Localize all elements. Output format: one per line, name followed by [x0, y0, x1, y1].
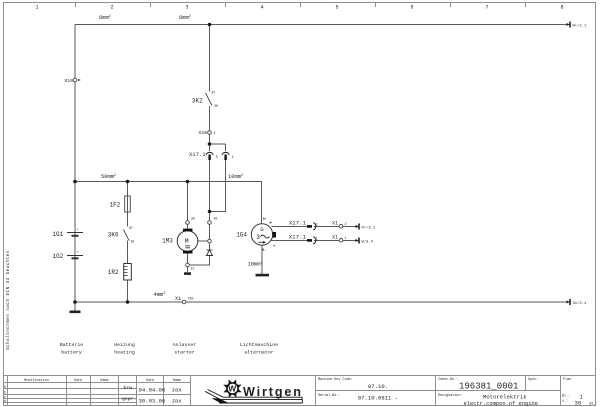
svg-text:Heizung: Heizung	[114, 342, 135, 348]
svg-text:07.10.: 07.10.	[368, 383, 388, 390]
svg-text:2: 2	[316, 224, 318, 228]
svg-text:Anlasser: Anlasser	[173, 342, 197, 348]
node pin50 merge	[208, 210, 212, 214]
grid column numbers	[35, 5, 563, 11]
svg-text:3K6: 3K6	[108, 231, 119, 238]
svg-text:2: 2	[110, 5, 113, 11]
svg-text:Jax: Jax	[172, 398, 183, 405]
svg-text:heating: heating	[114, 350, 135, 356]
flag reference D+/3.1	[356, 224, 376, 231]
svg-text:2: 2	[345, 223, 347, 227]
svg-text:87: 87	[212, 91, 216, 95]
svg-text:Bl.:: Bl.:	[590, 402, 598, 407]
svg-text:Serial-No.:: Serial-No.:	[318, 393, 340, 398]
motor 1M3 pin 50	[208, 221, 212, 225]
wire 3K6 to 1R2	[127, 241, 129, 264]
svg-text:3K2: 3K2	[192, 97, 203, 104]
revision row 2	[122, 397, 182, 405]
flag reference B+/2.1 top right	[567, 22, 587, 29]
ground battery	[70, 311, 81, 314]
wire battery to ground	[74, 302, 76, 311]
wire diode to pin31 node	[190, 256, 210, 266]
svg-text:Designation:: Designation:	[438, 393, 462, 398]
wire alternator B- to ground	[261, 245, 263, 274]
connector X17.1 pin 1 (W row)	[289, 234, 318, 244]
node X17.1 split	[208, 142, 212, 146]
svg-text:v.:: v.:	[562, 400, 568, 404]
svg-text:4mm2: 4mm2	[154, 292, 166, 298]
svg-text:X17.1: X17.1	[289, 220, 307, 227]
svg-text:31: 31	[191, 267, 195, 271]
svg-text:1R2: 1R2	[108, 269, 119, 276]
svg-text:87: 87	[129, 226, 133, 230]
battery 1G1	[67, 233, 83, 236]
svg-text:B+: B+	[263, 218, 267, 222]
svg-text:w: w	[273, 244, 275, 248]
wire 3K2 drop from top bus	[209, 25, 211, 92]
wire top bus 30/B+ rail	[75, 24, 569, 26]
svg-text:10mm2: 10mm2	[228, 174, 243, 180]
wire 1R2 to bottom bus	[127, 280, 129, 302]
svg-text:30: 30	[191, 216, 195, 220]
svg-text:battery: battery	[61, 350, 82, 356]
node top bus / 3K2	[208, 23, 212, 27]
svg-text:brw.: brw.	[124, 385, 136, 391]
terminal X10 below 3K2	[199, 130, 216, 136]
svg-text:Spot:: Spot:	[528, 378, 538, 382]
svg-text:Data: Data	[74, 379, 82, 383]
terminal X10 on battery feed	[64, 78, 81, 84]
svg-text:7: 7	[485, 5, 488, 11]
switch 3K6	[124, 230, 130, 241]
svg-text:Machine Key Code:: Machine Key Code:	[318, 377, 353, 382]
svg-text:3: 3	[256, 234, 260, 241]
svg-text:1G2: 1G2	[53, 253, 64, 260]
plan cell	[562, 377, 598, 407]
svg-text:8: 8	[560, 5, 563, 11]
svg-text:Bl.:: Bl.:	[562, 393, 570, 398]
wire right X17.1 down and left to pin50 node	[210, 160, 226, 212]
motor side terminal	[208, 239, 212, 243]
svg-text:alternator: alternator	[244, 350, 273, 356]
svg-text:M: M	[185, 238, 189, 245]
svg-text:Lichtmaschine: Lichtmaschine	[240, 342, 278, 348]
wire pin50 down to motor side terminal	[209, 225, 211, 240]
title block vertical lines right	[315, 376, 317, 406]
alternator 1G4	[236, 218, 276, 253]
title block header bottom line	[4, 382, 191, 384]
svg-text:4: 4	[214, 132, 216, 136]
motor 1M3	[162, 229, 198, 254]
svg-text:6: 6	[410, 5, 413, 11]
wire motor branch from mid bus	[187, 182, 189, 221]
wire alternator D+ row	[271, 225, 307, 227]
svg-text:Plan: Plan	[563, 377, 571, 382]
svg-text:6mm2: 6mm2	[179, 15, 191, 21]
svg-text:30: 30	[575, 400, 582, 407]
svg-text:Schaltnormen nach DIN 34 beach: Schaltnormen nach DIN 34 beachten	[6, 250, 11, 350]
svg-text:Name: Name	[173, 379, 181, 383]
Wirtgen logo	[205, 381, 303, 404]
svg-text:+: +	[77, 229, 80, 233]
svg-text:1G1: 1G1	[52, 231, 63, 238]
wire left X17.1 to pin50	[209, 160, 211, 220]
svg-text:Ident-No.:: Ident-No.:	[438, 377, 458, 382]
svg-text:d: d	[4, 399, 6, 404]
wire fuse branch	[127, 182, 129, 227]
title block mid horizontal right	[316, 390, 561, 392]
diode V1	[207, 250, 213, 256]
terminal X1 pin 1 (W row)	[332, 235, 347, 243]
flag reference W/3.4	[356, 238, 374, 245]
svg-text:X17.1: X17.1	[189, 151, 206, 158]
wire right connector drop	[225, 144, 227, 151]
node bottom bus / 1R2	[126, 300, 130, 304]
wire pin31 to ground	[187, 267, 189, 272]
row letters	[4, 386, 7, 405]
svg-text:30: 30	[214, 104, 218, 108]
motor 1M3 pin 30	[186, 221, 190, 225]
wire battery branch vertical	[74, 25, 76, 303]
svg-text:X1: X1	[332, 221, 338, 227]
node mid bus / fuse	[126, 180, 130, 184]
svg-text:b: b	[4, 391, 6, 396]
ground alternator	[256, 274, 270, 277]
svg-text:5: 5	[335, 5, 338, 11]
svg-text:1: 1	[345, 237, 347, 241]
flag reference 31/2.1 bottom right	[567, 299, 587, 306]
motor pin 31	[186, 263, 190, 267]
svg-text:50: 50	[214, 217, 218, 221]
title block top line	[4, 375, 596, 377]
svg-text:3: 3	[185, 5, 188, 11]
svg-text:Batterie: Batterie	[60, 342, 84, 348]
svg-text:04.04.06: 04.04.06	[139, 386, 166, 393]
svg-text:07.10.0811 -: 07.10.0811 -	[358, 394, 398, 401]
svg-text:30: 30	[131, 240, 135, 244]
svg-text:Motorelektrik: Motorelektrik	[483, 394, 527, 401]
svg-text:50mm2: 50mm2	[101, 174, 116, 180]
fuse 1F2	[109, 196, 130, 212]
svg-text:1: 1	[316, 238, 318, 242]
svg-text:starter: starter	[174, 350, 195, 356]
svg-text:Modification: Modification	[24, 378, 48, 383]
svg-text:1F2: 1F2	[109, 202, 120, 209]
header labels	[24, 378, 181, 383]
switch 3K2	[206, 93, 213, 106]
svg-text:1M3: 1M3	[162, 237, 173, 244]
svg-text:30.03.06: 30.03.06	[139, 398, 166, 405]
title block row lines	[4, 388, 137, 390]
wire pin30 to motor	[187, 225, 189, 230]
svg-text:3: 3	[216, 156, 218, 160]
revision row 1	[124, 385, 183, 393]
svg-text:Wirtgen: Wirtgen	[243, 385, 301, 399]
svg-text:1: 1	[35, 5, 38, 11]
junction dots	[73, 23, 211, 304]
svg-text:4: 4	[232, 156, 234, 160]
svg-text:B+/2.1: B+/2.1	[573, 23, 587, 28]
wire left connector drop	[209, 144, 211, 151]
machine key code cell	[318, 377, 398, 401]
connector X17.1 pins 3 and 4	[189, 151, 234, 160]
svg-text:Jax: Jax	[172, 386, 183, 393]
svg-text:Name: Name	[100, 379, 108, 383]
connector X17.1 pin 2 (D+ row)	[289, 220, 318, 230]
svg-text:Data: Data	[146, 379, 154, 383]
ident number cell	[438, 377, 538, 407]
title block vertical lines left	[7, 376, 9, 406]
svg-text:X17.1: X17.1	[289, 234, 307, 241]
svg-text:X1: X1	[175, 296, 181, 302]
wire motor right side to terminal	[198, 240, 208, 242]
svg-text:B-: B-	[262, 249, 266, 253]
svg-text:X10: X10	[199, 130, 208, 136]
wire bottom bus 31 rail	[75, 301, 182, 303]
svg-text:+: +	[77, 251, 80, 255]
terminal X1 pin 2 (D+ row)	[332, 221, 347, 229]
terminal X1 on bottom bus	[175, 296, 193, 304]
svg-text:4: 4	[260, 5, 263, 11]
svg-text:1G4: 1G4	[236, 231, 247, 238]
node mid bus / battery	[73, 180, 77, 184]
wire terminal to diode	[209, 243, 211, 250]
svg-text:6mm2: 6mm2	[99, 15, 111, 21]
battery 1G2	[67, 256, 83, 259]
ground motor	[184, 272, 191, 275]
svg-text:X1: X1	[332, 235, 338, 241]
svg-text:D+/3.1: D+/3.1	[362, 225, 376, 230]
svg-text:196381_0001: 196381_0001	[459, 381, 518, 391]
grid column ticks	[76, 3, 526, 8]
resistor 1R2 heating element	[108, 264, 132, 281]
wire motor bottom to pin31	[187, 254, 189, 264]
wire mid 50mm bus	[75, 182, 262, 225]
svg-text:31/2.1: 31/2.1	[573, 301, 587, 306]
svg-text:gepr.: gepr.	[122, 397, 136, 402]
node mid bus / motor	[186, 180, 190, 184]
svg-text:electr.compon.of engine: electr.compon.of engine	[464, 401, 538, 407]
wire alternator W row	[271, 239, 307, 241]
svg-text:T30: T30	[188, 297, 194, 301]
node bottom bus / battery	[73, 300, 77, 304]
svg-text:X10: X10	[64, 78, 73, 84]
svg-text:W: W	[228, 384, 236, 394]
svg-text:10mm2: 10mm2	[248, 262, 263, 268]
wire X17.1 split horizontal	[210, 143, 226, 145]
wire 3K2 to X10 to junction	[209, 106, 211, 144]
svg-text:W/3.4: W/3.4	[362, 239, 374, 244]
